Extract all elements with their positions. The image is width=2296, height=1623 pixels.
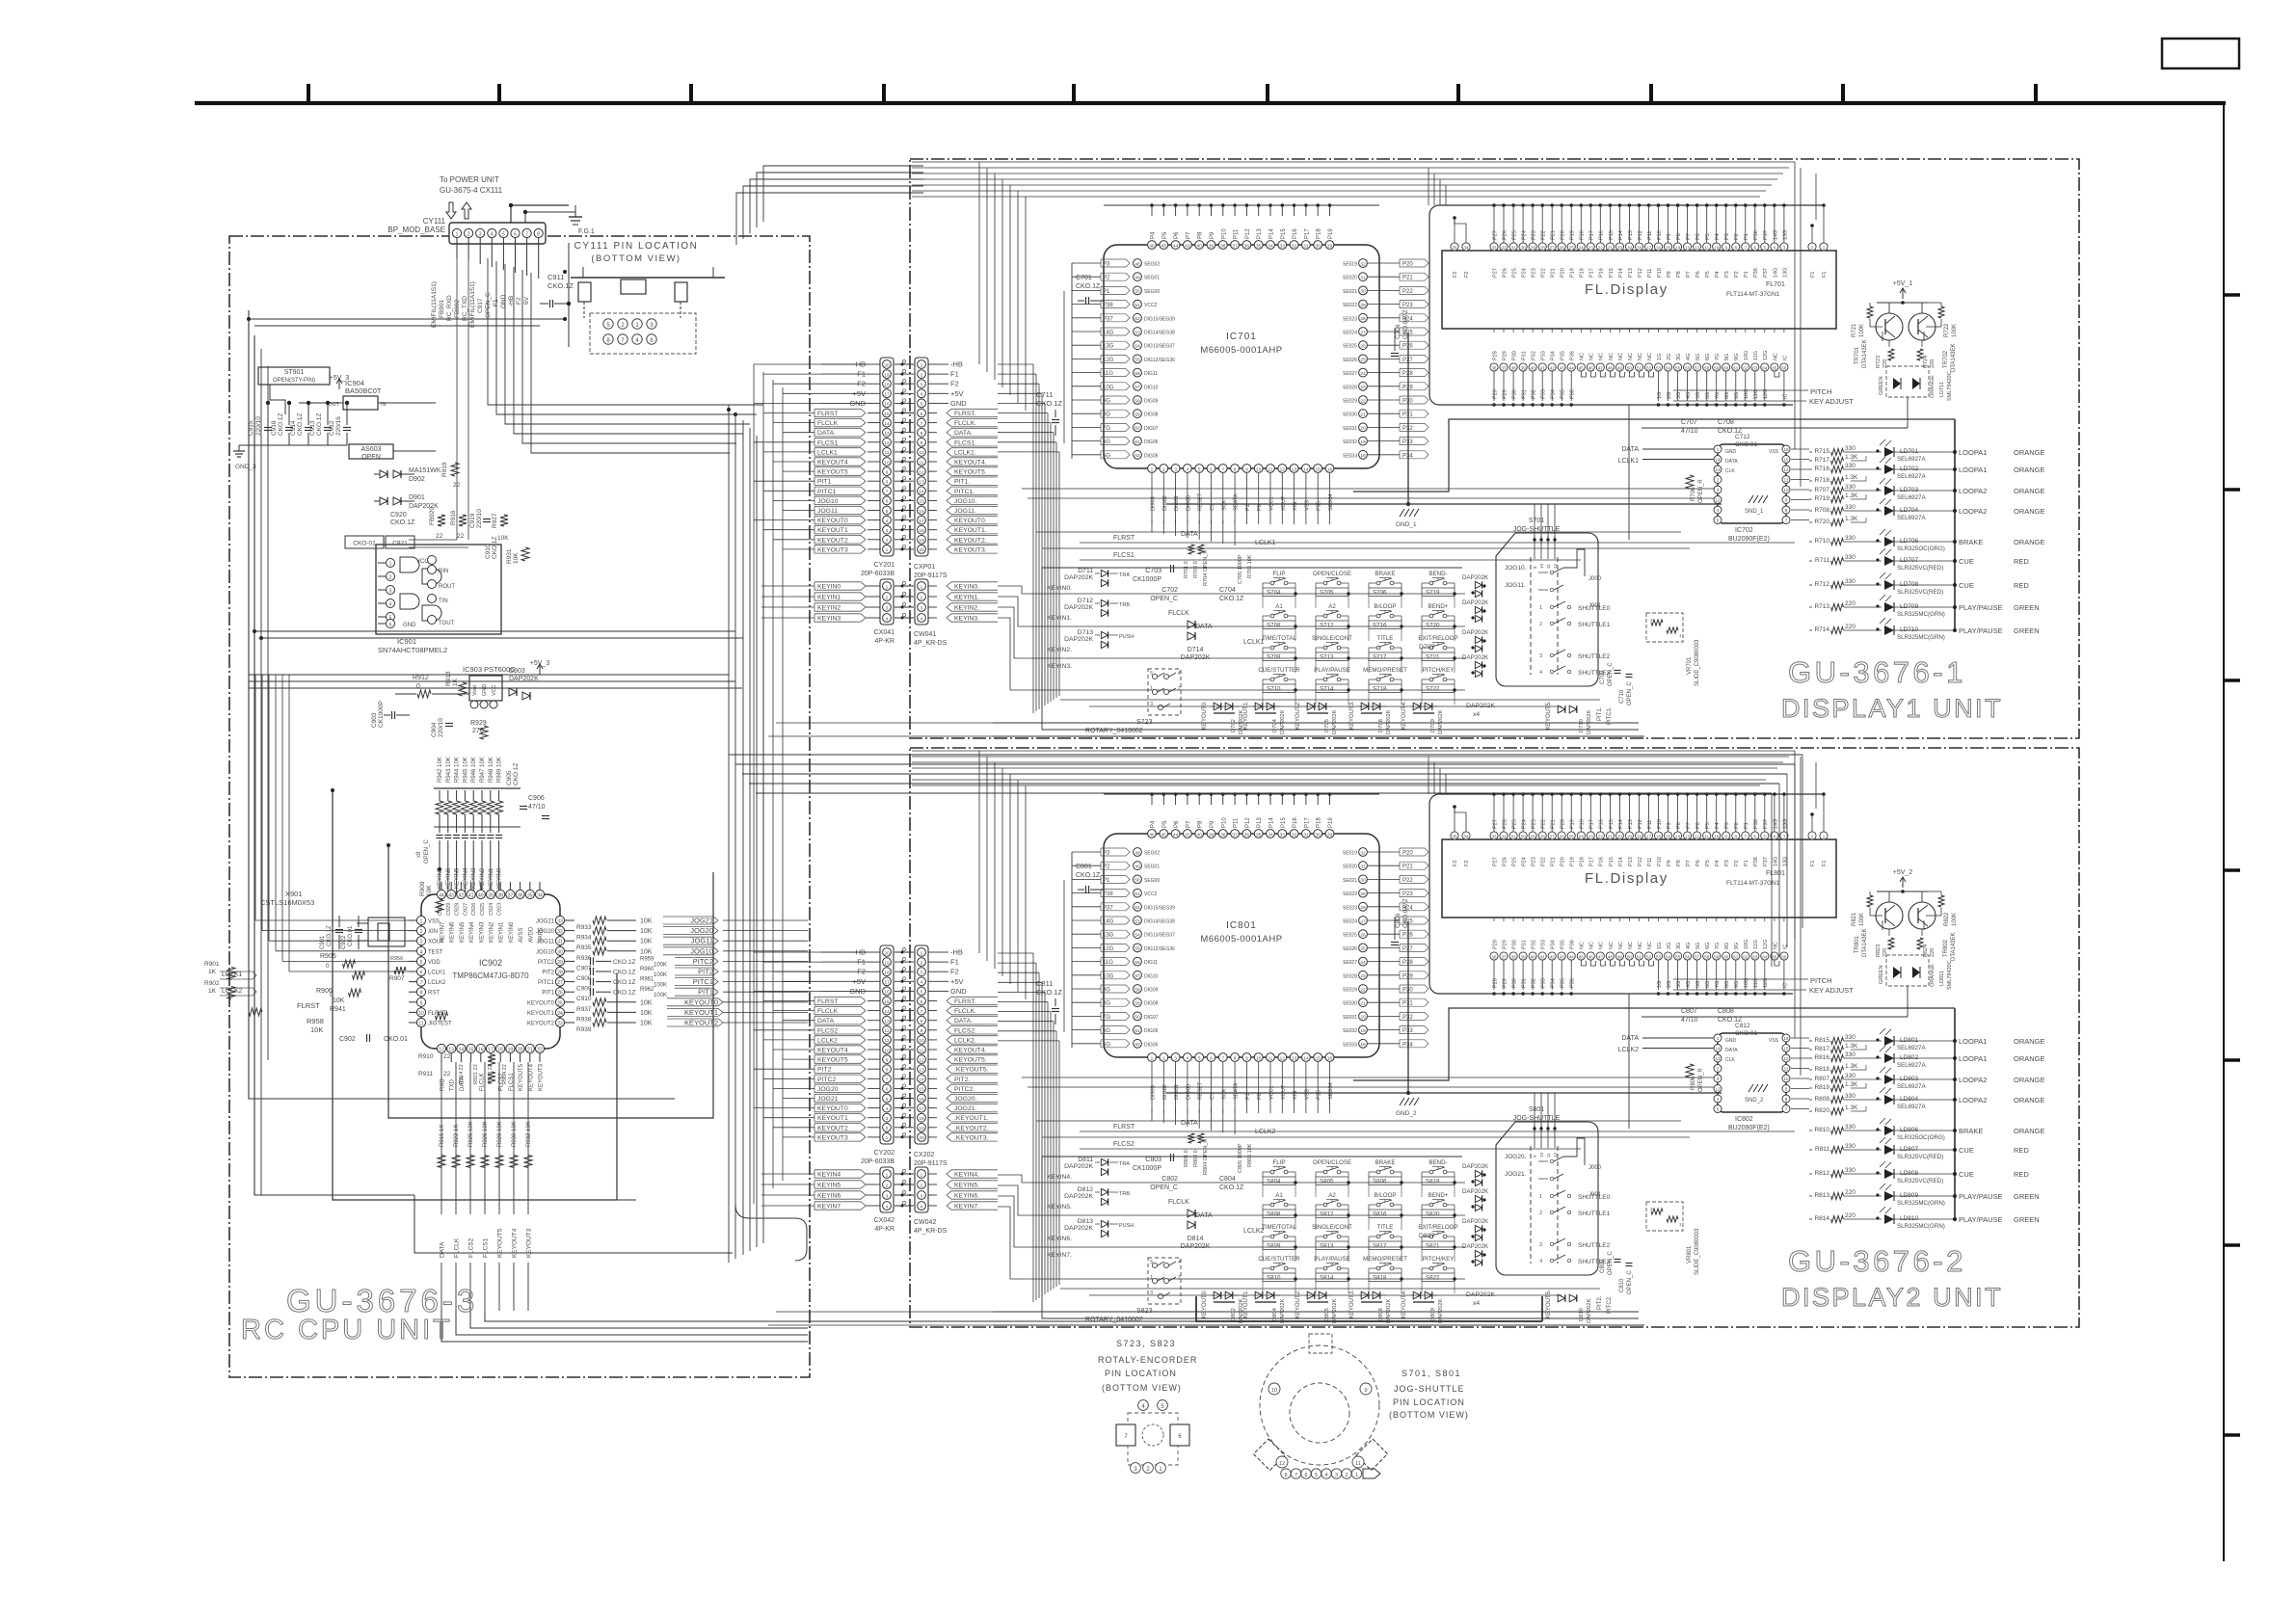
svg-text:SE020: SE020 — [1343, 276, 1357, 281]
svg-text:P35: P35 — [1561, 351, 1566, 360]
svg-text:IC702: IC702 — [1735, 527, 1753, 534]
svg-text:SEL6927A: SEL6927A — [1897, 1083, 1926, 1090]
svg-text:18: 18 — [1360, 1042, 1366, 1048]
svg-text:47/10: 47/10 — [528, 804, 546, 811]
svg-text:P19: P19 — [1328, 817, 1334, 828]
svg-text:P36: P36 — [1570, 940, 1576, 949]
svg-text:1: 1 — [921, 950, 923, 956]
display FL801 FL.Display body — [1442, 839, 1836, 918]
wire fl bottom collect — [1439, 404, 1793, 406]
svg-text:10: 10 — [1714, 834, 1720, 838]
svg-text:LCLK2: LCLK2 — [817, 1037, 838, 1044]
svg-text:16: 16 — [884, 990, 890, 996]
svg-text:R822: R822 — [1944, 912, 1950, 926]
svg-text:C920: C920 — [390, 512, 407, 519]
svg-text:SE023: SE023 — [1343, 316, 1357, 322]
svg-text:KEYOUT2: KEYOUT2 — [817, 537, 848, 544]
svg-text:32: 32 — [1360, 850, 1366, 856]
ground GND_3 — [239, 444, 347, 446]
svg-text:R912: R912 — [413, 675, 429, 681]
svg-text:21: 21 — [1360, 1001, 1366, 1007]
svg-text:GND_1: GND_1 — [1396, 521, 1417, 528]
wire left bus staircase verticals — [753, 364, 755, 1204]
svg-text:C705 1000P: C705 1000P — [1238, 554, 1243, 584]
svg-text:5: 5 — [1198, 1055, 1201, 1061]
svg-text:.KEYOUT5.: .KEYOUT5. — [954, 1067, 989, 1074]
svg-text:14: 14 — [919, 1078, 924, 1083]
svg-text:16: 16 — [919, 1097, 924, 1103]
svg-text:TRB: TRB — [1119, 602, 1130, 608]
svg-text:12: 12 — [1695, 834, 1700, 838]
svg-text:P8: P8 — [1676, 822, 1682, 829]
svg-text:DIG12/SEG36: DIG12/SEG36 — [1144, 946, 1175, 952]
svg-text:15: 15 — [1316, 466, 1322, 472]
svg-text:31: 31 — [557, 940, 563, 945]
svg-text:3G: 3G — [1676, 392, 1682, 399]
svg-text:BP_MOD_BASE: BP_MOD_BASE — [387, 226, 445, 234]
svg-text:SEG34: SEG34 — [1328, 493, 1334, 511]
svg-text:PIT2: PIT2 — [542, 971, 554, 976]
svg-text:PIT2.: PIT2. — [1597, 1295, 1603, 1310]
jog shuttle pin diagram — [1260, 1345, 1379, 1465]
svg-text:26: 26 — [557, 991, 563, 997]
svg-text:DIG10: DIG10 — [1144, 385, 1159, 390]
svg-text:KEYIN0.: KEYIN0. — [954, 584, 979, 591]
svg-text:SE025: SE025 — [1343, 344, 1357, 350]
svg-text:30: 30 — [1316, 832, 1322, 838]
svg-text:26: 26 — [1360, 933, 1366, 939]
svg-text:(BOTTOM VIEW): (BOTTOM VIEW) — [1102, 1383, 1182, 1393]
svg-text:SE022: SE022 — [1343, 303, 1357, 308]
svg-text:LD803: LD803 — [1900, 1076, 1919, 1082]
svg-text:12: 12 — [884, 1028, 890, 1034]
svg-text:18: 18 — [919, 528, 924, 534]
svg-text:SEL6927A: SEL6927A — [1897, 1062, 1926, 1069]
svg-text:P24: P24 — [1522, 268, 1528, 278]
svg-text:4: 4 — [886, 519, 889, 524]
svg-text:P8: P8 — [1198, 820, 1204, 828]
wire key row 0 — [1042, 1182, 1465, 1184]
svg-text:CKO.1Z: CKO.1Z — [513, 762, 520, 785]
svg-text:4P-KR: 4P-KR — [874, 638, 894, 645]
svg-text:DIG10: DIG10 — [1144, 973, 1159, 979]
svg-text:TOUT: TOUT — [439, 621, 455, 626]
svg-text:TR801: TR801 — [1855, 935, 1860, 953]
wire fl bottom collect — [1439, 993, 1793, 995]
svg-text:PIT1.: PIT1. — [954, 479, 970, 486]
svg-text:SE032: SE032 — [1343, 1028, 1357, 1034]
svg-text:NC: NC — [1599, 942, 1605, 949]
svg-text:P7: P7 — [1686, 233, 1692, 240]
svg-text:R937: R937 — [576, 1006, 592, 1013]
svg-text:46: 46 — [1149, 832, 1155, 838]
svg-text:DTA143EK: DTA143EK — [1951, 343, 1957, 372]
svg-text:LOOPA2: LOOPA2 — [1959, 1076, 1987, 1084]
svg-text:60: 60 — [1723, 954, 1729, 959]
svg-text:P26: P26 — [1502, 268, 1508, 278]
svg-text:R961: R961 — [640, 977, 654, 983]
svg-text:P24: P24 — [1522, 230, 1528, 240]
svg-text:KEYIN4: KEYIN4 — [817, 1172, 841, 1179]
svg-text:KEYIN4: KEYIN4 — [463, 867, 468, 889]
svg-text:38: 38 — [1511, 954, 1517, 959]
transistor TR802 DTA143EK — [1909, 902, 1936, 929]
svg-text:LOOPA1: LOOPA1 — [1959, 466, 1987, 474]
svg-text:53: 53 — [1135, 918, 1140, 924]
svg-text:0: 0 — [326, 963, 330, 970]
svg-text:13: 13 — [1715, 1056, 1721, 1061]
svg-text:C910: C910 — [576, 996, 592, 1002]
svg-text:ROTALY-ENCORDER: ROTALY-ENCORDER — [1098, 1355, 1197, 1365]
svg-text:3: 3 — [921, 1193, 923, 1199]
svg-text:49: 49 — [1617, 954, 1623, 959]
svg-text:C913: C913 — [309, 420, 316, 436]
svg-text:10: 10 — [1783, 1077, 1789, 1081]
svg-text:CXP01: CXP01 — [914, 564, 935, 571]
svg-text:S821: S821 — [1426, 1243, 1440, 1250]
svg-text:LD701: LD701 — [1900, 448, 1919, 455]
wire keyin bus bottom — [617, 1199, 636, 1201]
svg-text:P32: P32 — [1532, 351, 1537, 360]
svg-text:55: 55 — [1675, 954, 1681, 959]
svg-text:DI903: DI903 — [1151, 1085, 1157, 1100]
svg-text:4: 4 — [886, 1204, 889, 1210]
svg-text:KEYOUT3.: KEYOUT3. — [1349, 701, 1355, 730]
svg-text:14: 14 — [1715, 1047, 1721, 1051]
svg-text:CKO.1Z: CKO.1Z — [547, 281, 574, 290]
svg-text:GREEN: GREEN — [2014, 626, 2040, 635]
svg-text:LD703: LD703 — [1900, 487, 1919, 493]
svg-text:FLCLK: FLCLK — [1168, 1199, 1189, 1206]
svg-text:FLCS2: FLCS2 — [468, 1237, 475, 1258]
svg-text:1.3K: 1.3K — [1845, 1081, 1858, 1088]
svg-text:P9: P9 — [1667, 822, 1672, 829]
svg-text:CLK: CLK — [1725, 1057, 1735, 1063]
svg-text:KEYOUT1.: KEYOUT1. — [1243, 1290, 1249, 1318]
svg-text:PLAY/PAUSE: PLAY/PAUSE — [1959, 1215, 2003, 1224]
svg-text:R713: R713 — [1814, 603, 1829, 610]
svg-text:2G: 2G — [1667, 354, 1672, 360]
svg-text:12: 12 — [1280, 1055, 1286, 1061]
svg-text:FLCS2: FLCS2 — [817, 1027, 838, 1034]
svg-text:P14: P14 — [1618, 230, 1624, 240]
svg-text:25: 25 — [557, 1000, 563, 1006]
svg-text:P20: P20 — [1561, 230, 1566, 240]
svg-text:D808: D808 — [1378, 1308, 1384, 1321]
svg-text:R925 10K: R925 10K — [468, 1121, 474, 1147]
svg-text:SE024: SE024 — [1343, 331, 1357, 336]
svg-text:21: 21 — [1608, 834, 1614, 838]
svg-text:PITC1.: PITC1. — [1607, 706, 1613, 725]
svg-text:35: 35 — [1256, 243, 1262, 249]
svg-text:FLCLK: FLCLK — [454, 1237, 461, 1258]
svg-text:R701 0: R701 0 — [1184, 561, 1189, 578]
wire bus left box to display1 top — [763, 166, 923, 222]
ruler ticks right — [2224, 293, 2240, 297]
svg-text:P16: P16 — [1293, 228, 1298, 239]
svg-text:15: 15 — [919, 1087, 924, 1093]
svg-text:4G: 4G — [1686, 943, 1692, 949]
svg-text:7: 7 — [921, 1009, 923, 1015]
svg-text:SLR325MC(GRN): SLR325MC(GRN) — [1897, 1200, 1945, 1207]
svg-text:KEYOUT3: KEYOUT3 — [817, 546, 848, 553]
svg-text:C708: C708 — [1718, 419, 1734, 426]
svg-text:S721: S721 — [1426, 654, 1440, 661]
svg-text:KEYIN1: KEYIN1 — [489, 867, 494, 889]
op-amp IC901 SN74AHCT08PMEL2 — [376, 545, 501, 634]
wires CY111 pins down — [456, 238, 458, 258]
svg-text:8: 8 — [537, 232, 540, 238]
svg-text:OPEN_C: OPEN_C — [1608, 1251, 1614, 1275]
svg-text:SEG02: SEG02 — [1144, 851, 1160, 857]
svg-text:12: 12 — [1553, 1152, 1558, 1157]
svg-text:7: 7 — [1221, 466, 1224, 472]
svg-text:C928: C928 — [455, 903, 461, 916]
svg-text:4: 4 — [491, 232, 494, 238]
svg-text:NC: NC — [1773, 942, 1778, 949]
svg-text:S709: S709 — [1267, 654, 1281, 661]
svg-text:R931: R931 — [506, 548, 513, 564]
svg-text:R926 10K: R926 10K — [483, 1121, 489, 1147]
svg-text:P0: P0 — [1257, 504, 1263, 511]
svg-text:12: 12 — [1280, 466, 1286, 472]
svg-text:22: 22 — [537, 1048, 543, 1053]
svg-text:14: 14 — [1303, 1055, 1309, 1061]
svg-text:P11: P11 — [1647, 269, 1653, 278]
svg-text:P19: P19 — [1570, 857, 1576, 866]
svg-text:45: 45 — [1161, 243, 1167, 249]
svg-text:R805 10K: R805 10K — [1247, 1143, 1253, 1167]
svg-text:P28: P28 — [1492, 351, 1498, 360]
IC IC801 left pins — [1134, 848, 1142, 857]
svg-text:SLR325VC(RED): SLR325VC(RED) — [1897, 1154, 1943, 1160]
svg-text:12: 12 — [1715, 498, 1721, 503]
svg-text:28: 28 — [1540, 245, 1546, 250]
svg-text:2: 2 — [921, 960, 923, 966]
svg-text:8: 8 — [1234, 466, 1237, 472]
svg-text:13G: 13G — [1782, 268, 1788, 278]
wire IC701 to FL routing — [1428, 269, 1429, 271]
svg-text:DTA143EK: DTA143EK — [1862, 339, 1868, 368]
svg-text:P4: P4 — [1715, 271, 1721, 278]
svg-text:29: 29 — [1327, 243, 1333, 249]
svg-text:2: 2 — [886, 538, 889, 544]
svg-text:LD807: LD807 — [1900, 1146, 1919, 1153]
svg-text:ORANGE: ORANGE — [2014, 466, 2045, 474]
svg-text:1K: 1K — [208, 969, 217, 975]
svg-text:SCK: SCK — [1221, 499, 1227, 511]
svg-text:R927: R927 — [492, 513, 498, 528]
svg-text:29: 29 — [1360, 891, 1366, 897]
svg-text:31: 31 — [1360, 865, 1366, 870]
svg-text:D712: D712 — [1078, 598, 1093, 604]
svg-text:11G: 11G — [1753, 940, 1759, 949]
svg-text:x4: x4 — [1473, 1300, 1480, 1307]
svg-text:CW042: CW042 — [914, 1219, 936, 1226]
svg-text:S805: S805 — [1320, 1179, 1334, 1185]
svg-text:C908: C908 — [576, 975, 592, 982]
svg-text:35: 35 — [1452, 245, 1457, 250]
IC IC801 top bus wire — [1104, 793, 1379, 795]
svg-text:JOG21: JOG21 — [536, 919, 555, 925]
svg-text:48: 48 — [1608, 954, 1614, 959]
svg-text:1: 1 — [389, 562, 392, 568]
svg-text:CX041: CX041 — [874, 629, 895, 636]
svg-text:29: 29 — [1531, 245, 1536, 250]
svg-text:LCLK1.: LCLK1. — [954, 449, 976, 456]
svg-text:TMP86CM47JG-8D70: TMP86CM47JG-8D70 — [452, 971, 529, 980]
unit boundary GU-3676-1 — [910, 159, 2079, 738]
svg-text:8G: 8G — [1724, 354, 1730, 360]
svg-text:RESET: RESET — [1198, 492, 1204, 511]
svg-text:XIN: XIN — [1293, 1091, 1298, 1100]
svg-text:31: 31 — [1511, 834, 1517, 838]
svg-text:26: 26 — [1360, 344, 1366, 350]
svg-text:P22: P22 — [1541, 819, 1547, 829]
svg-text:330: 330 — [1845, 1124, 1855, 1131]
IC IC801 right pins — [1359, 848, 1368, 857]
svg-text:P8: P8 — [1676, 860, 1682, 866]
connector CY202 strip — [880, 945, 894, 1144]
svg-text:LD811: LD811 — [1939, 971, 1945, 986]
svg-text:F1: F1 — [1822, 861, 1828, 866]
svg-text:DATA: DATA — [817, 430, 835, 437]
svg-text:TEST: TEST — [428, 949, 443, 955]
svg-text:34: 34 — [1268, 832, 1273, 838]
svg-text:R909: R909 — [419, 881, 426, 896]
svg-text:4G: 4G — [1686, 981, 1692, 988]
svg-text:KEYOUT2.: KEYOUT2. — [1295, 701, 1301, 730]
svg-text:ORANGE: ORANGE — [1930, 375, 1936, 398]
svg-text:SLR325OC(ORG): SLR325OC(ORG) — [1897, 545, 1945, 552]
svg-text:P3: P3 — [1103, 262, 1110, 268]
svg-text:-HB: -HB — [950, 360, 963, 369]
svg-text:F2: F2 — [1453, 272, 1458, 278]
svg-text:DIG07: DIG07 — [1144, 1015, 1159, 1021]
svg-text:D802: D802 — [1231, 1308, 1237, 1321]
svg-text:KEYIN5.: KEYIN5. — [954, 1183, 979, 1189]
wire fl display feed verticals — [1428, 168, 1429, 205]
svg-text:C919: C919 — [469, 513, 476, 528]
LED LD804 SEL6927A — [1844, 1099, 1882, 1101]
svg-text:220: 220 — [1930, 359, 1936, 368]
svg-text:34: 34 — [537, 893, 543, 899]
svg-text:SEG00: SEG00 — [1144, 878, 1160, 884]
wire IC801 left bus vertical — [1071, 852, 1073, 1048]
svg-text:330: 330 — [1845, 1093, 1855, 1100]
svg-text:16: 16 — [884, 402, 890, 408]
svg-text:P16: P16 — [1599, 230, 1605, 240]
svg-text:DIG06: DIG06 — [1144, 1028, 1159, 1034]
svg-text:330: 330 — [1845, 1073, 1855, 1079]
svg-text:P19: P19 — [1570, 819, 1576, 829]
svg-text:M66005-0001AHP: M66005-0001AHP — [1200, 345, 1282, 356]
wire horizontal bus mid — [254, 630, 735, 632]
display FL801 outer wire loop — [1429, 794, 1825, 994]
svg-text:1.3K: 1.3K — [1845, 492, 1858, 499]
svg-text:53: 53 — [1656, 954, 1662, 959]
power +5V_2 arrow — [1902, 878, 1904, 888]
svg-text:23: 23 — [1360, 385, 1366, 390]
svg-text:12G: 12G — [1763, 940, 1769, 949]
svg-text:RED: RED — [2014, 1170, 2029, 1179]
svg-text:11G: 11G — [1103, 371, 1113, 377]
svg-text:P6: P6 — [1695, 271, 1701, 278]
svg-text:28: 28 — [1540, 834, 1546, 838]
svg-text:12: 12 — [1783, 467, 1789, 472]
svg-text:P20: P20 — [1402, 851, 1413, 857]
svg-text:P16: P16 — [1293, 817, 1298, 828]
svg-text:ORANGE: ORANGE — [2014, 1076, 2045, 1084]
svg-text:17: 17 — [488, 1048, 494, 1053]
svg-text:P30: P30 — [1512, 978, 1518, 988]
svg-text:.KEYOUT2.: .KEYOUT2. — [954, 1125, 989, 1131]
resistor R724 220 — [1921, 340, 1923, 347]
wire data clk bus 2 — [1022, 488, 1714, 490]
ruler ticks top — [307, 84, 310, 102]
svg-text:SND_2: SND_2 — [1745, 1098, 1764, 1104]
svg-text:PUSH: PUSH — [1119, 1223, 1134, 1229]
svg-text:KEYOUT4: KEYOUT4 — [817, 460, 848, 466]
svg-text:13: 13 — [1715, 467, 1721, 472]
svg-text:P4: P4 — [1715, 233, 1721, 240]
svg-text:DAP202K: DAP202K — [1462, 574, 1489, 581]
svg-text:D811: D811 — [1078, 1157, 1093, 1163]
svg-text:D901: D901 — [409, 494, 425, 501]
svg-text:D805: D805 — [1324, 1308, 1330, 1321]
svg-text:12: 12 — [884, 440, 890, 446]
svg-text:P35: P35 — [1317, 501, 1322, 511]
svg-text:KEYIN2: KEYIN2 — [817, 605, 841, 612]
svg-text:S806: S806 — [1373, 1179, 1387, 1185]
svg-text:51: 51 — [1135, 891, 1140, 897]
svg-text:CKO.1Z: CKO.1Z — [390, 519, 415, 526]
svg-text:P11: P11 — [1647, 820, 1653, 829]
svg-text:GREEN: GREEN — [1879, 376, 1884, 395]
ground GND_1 wire — [1407, 921, 1409, 1093]
svg-text:LOOPA1: LOOPA1 — [1959, 1054, 1987, 1063]
svg-text:10K: 10K — [640, 1010, 653, 1017]
svg-text:SE026: SE026 — [1343, 946, 1357, 952]
svg-text:F2: F2 — [950, 968, 959, 976]
IC IC801 M66005-0001AHP body — [1104, 834, 1379, 1057]
svg-text:DTA143EK: DTA143EK — [1951, 932, 1957, 961]
svg-text:S822: S822 — [1426, 1275, 1440, 1282]
svg-text:R946 10K: R946 10K — [471, 757, 477, 783]
svg-text:SE030: SE030 — [1343, 1001, 1357, 1007]
svg-text:P36: P36 — [1570, 351, 1576, 360]
svg-text:11: 11 — [1268, 466, 1273, 472]
svg-text:39: 39 — [1209, 832, 1215, 838]
svg-text:35: 35 — [527, 893, 533, 899]
svg-text:P10: P10 — [1657, 230, 1663, 240]
svg-text:6G: 6G — [1103, 439, 1110, 445]
svg-text:44: 44 — [1569, 954, 1575, 959]
svg-text:11: 11 — [1268, 1055, 1273, 1061]
svg-text:8G: 8G — [1724, 943, 1730, 949]
svg-text:28: 28 — [1360, 905, 1366, 911]
svg-text:JOG20: JOG20 — [536, 929, 555, 935]
svg-text:SE020: SE020 — [1343, 865, 1357, 870]
svg-text:25: 25 — [1360, 358, 1366, 363]
svg-text:P2: P2 — [1734, 860, 1740, 866]
svg-text:GND: GND — [482, 684, 488, 696]
svg-text:41: 41 — [1185, 243, 1190, 249]
svg-text:C703: C703 — [1145, 568, 1161, 574]
svg-text:330: 330 — [1845, 463, 1855, 469]
svg-text:SE021: SE021 — [1343, 878, 1357, 884]
svg-text:10: 10 — [884, 1048, 890, 1053]
